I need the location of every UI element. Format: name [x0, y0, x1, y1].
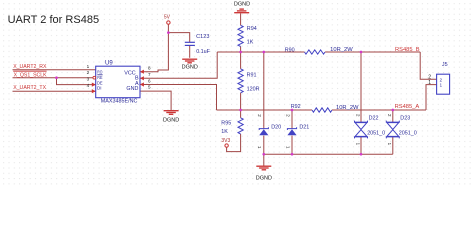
svg-text:DE: DE: [97, 80, 103, 86]
svg-text:1: 1: [87, 64, 90, 69]
svg-text:D20: D20: [271, 124, 281, 130]
svg-text:R95: R95: [221, 120, 231, 126]
svg-text:DGND: DGND: [163, 117, 179, 123]
svg-text:0.1uF: 0.1uF: [196, 49, 210, 55]
svg-text:C123: C123: [196, 34, 209, 40]
svg-text:D22: D22: [369, 116, 379, 122]
svg-text:D23: D23: [400, 116, 410, 122]
svg-text:UART 2 for RS485: UART 2 for RS485: [8, 14, 100, 26]
svg-text:4: 4: [87, 83, 90, 88]
svg-text:R90: R90: [285, 47, 295, 53]
svg-text:DI: DI: [97, 86, 102, 92]
svg-text:U9: U9: [105, 60, 113, 66]
svg-text:7: 7: [148, 72, 151, 77]
svg-text:RE: RE: [97, 75, 102, 81]
svg-text:10R_2W: 10R_2W: [330, 47, 353, 53]
svg-text:DGND: DGND: [234, 2, 250, 8]
svg-text:5: 5: [148, 85, 151, 90]
svg-text:R91: R91: [247, 72, 257, 78]
svg-text:R92: R92: [291, 104, 301, 110]
svg-text:DGND: DGND: [182, 64, 198, 70]
svg-text:1K: 1K: [221, 129, 228, 135]
svg-text:120R: 120R: [247, 87, 260, 93]
svg-text:RS485_B: RS485_B: [395, 47, 420, 53]
svg-text:2: 2: [87, 70, 90, 75]
svg-text:X_QS1_SCLK: X_QS1_SCLK: [14, 72, 47, 78]
svg-text:6: 6: [148, 78, 151, 83]
svg-text:D21: D21: [299, 124, 309, 130]
svg-text:1K: 1K: [247, 39, 254, 45]
svg-text:1: 1: [428, 80, 431, 86]
svg-text:X_UART2_RX: X_UART2_RX: [13, 64, 47, 70]
svg-text:X_UART2_TX: X_UART2_TX: [13, 85, 46, 91]
svg-text:2051_0: 2051_0: [367, 130, 385, 136]
svg-text:10R_2W: 10R_2W: [336, 105, 359, 111]
svg-text:3V3: 3V3: [221, 138, 230, 144]
svg-text:R94: R94: [247, 26, 257, 32]
svg-text:8: 8: [148, 66, 151, 71]
svg-text:2051_0: 2051_0: [399, 130, 417, 136]
svg-text:RS485_A: RS485_A: [395, 104, 420, 110]
svg-text:5V: 5V: [164, 14, 171, 20]
svg-text:GND: GND: [126, 86, 138, 92]
svg-text:J5: J5: [442, 62, 448, 68]
svg-text:DGND: DGND: [256, 175, 272, 181]
svg-text:3: 3: [87, 77, 90, 82]
svg-text:MAX3485E/NC: MAX3485E/NC: [101, 98, 138, 104]
